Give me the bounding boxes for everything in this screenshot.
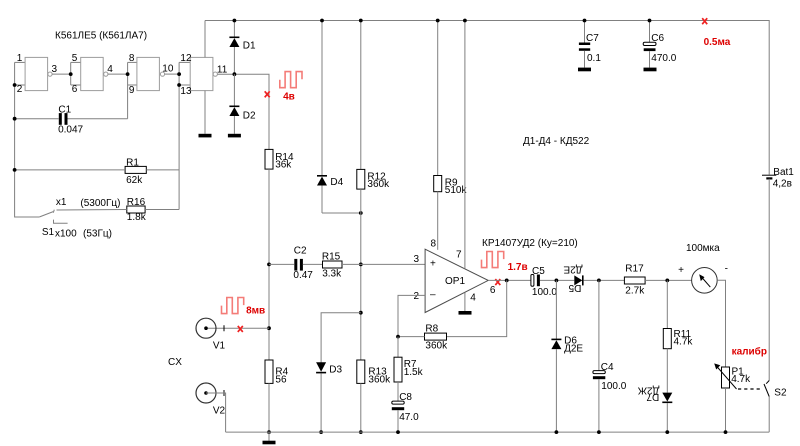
svg-text:V2: V2 bbox=[213, 406, 226, 417]
resistor R9 bbox=[434, 176, 468, 196]
diode D4 bbox=[317, 175, 344, 213]
svg-text:6: 6 bbox=[72, 84, 78, 95]
svg-text:0.047: 0.047 bbox=[58, 124, 83, 135]
svg-text:1.7в: 1.7в bbox=[508, 262, 528, 273]
node: pin3 row right junction bbox=[359, 263, 363, 267]
diode D1 bbox=[229, 21, 256, 75]
node: bottom rail at C4 bbox=[597, 430, 601, 434]
node: pin3 row left junction bbox=[267, 263, 271, 267]
node: D4 top rail junction bbox=[320, 19, 324, 23]
node: C7 top rail junction bbox=[583, 19, 587, 23]
node: output junction bbox=[505, 279, 509, 283]
svg-text:4.7k: 4.7k bbox=[674, 337, 694, 348]
capacitor C6 electrolytic bbox=[643, 21, 677, 68]
resistor R7 bbox=[394, 357, 424, 382]
svg-text:D2: D2 bbox=[243, 110, 256, 121]
wire: P1 to bottom rail bbox=[725, 388, 727, 432]
resistor R8 bbox=[425, 323, 449, 351]
svg-text:D7: D7 bbox=[646, 391, 659, 402]
node: bottom rail at P1 bbox=[724, 430, 728, 434]
wire: pin4 ground stub bbox=[464, 293, 466, 312]
wire: pin3 row segment 3 to op-amp bbox=[342, 263, 425, 265]
wire: P1 wiper dashed link to S2 bbox=[738, 388, 762, 390]
gate U1.4 bbox=[180, 53, 227, 97]
wire: feedback left of R8 up to pin2 bbox=[398, 295, 425, 336]
wire: R1 row right bbox=[146, 169, 179, 171]
meter M1 bbox=[678, 264, 728, 294]
wire: C1 row left bbox=[15, 118, 59, 120]
op-amp U2 triangle bbox=[414, 239, 496, 313]
diode D6 bbox=[551, 280, 583, 432]
wire: gate3 pin8 stub bbox=[128, 61, 137, 63]
wire: R12 down through pin3 row to R13 bbox=[360, 189, 362, 360]
ground at bottom rail bbox=[263, 441, 276, 445]
svg-text:S2: S2 bbox=[774, 388, 787, 399]
diode D5 bbox=[563, 264, 583, 294]
svg-text:D4: D4 bbox=[330, 177, 343, 188]
svg-text:510k: 510k bbox=[445, 185, 468, 196]
wire: gate4 ground pin bbox=[204, 91, 206, 134]
wire: gate1 pin2 stub bbox=[15, 84, 26, 86]
resistor R14 bbox=[265, 149, 294, 170]
probe mark x at V1 bbox=[238, 326, 243, 332]
capacitor C1 bbox=[58, 105, 83, 136]
node: D1/D2 on pin11 row bbox=[233, 72, 237, 76]
resistor R1 bbox=[125, 158, 146, 187]
node: bottom rail at R4 bbox=[267, 430, 271, 434]
svg-text:(5300Гц): (5300Гц) bbox=[80, 198, 120, 209]
svg-text:360k: 360k bbox=[425, 340, 448, 351]
svg-text:Д2Е: Д2Е bbox=[564, 343, 583, 354]
svg-text:C4: C4 bbox=[601, 362, 614, 373]
svg-text:C5: C5 bbox=[532, 266, 545, 277]
svg-text:100.0: 100.0 bbox=[601, 381, 626, 392]
wire: gate3 input vertical down to C1 bbox=[127, 62, 129, 118]
wire: meter minus to P1 column bbox=[717, 280, 725, 367]
terminal V2 bbox=[196, 383, 226, 417]
node: C1 left junction bbox=[13, 117, 17, 121]
node: pin8 top rail junction bbox=[436, 19, 440, 23]
svg-text:C2: C2 bbox=[294, 246, 307, 257]
gate U1.3 bbox=[129, 53, 174, 96]
wire: gate3 output to gate4 bbox=[165, 73, 180, 75]
ground under gate4 bbox=[199, 134, 212, 138]
ground under C6 bbox=[644, 68, 657, 72]
svg-text:CX: CX bbox=[168, 357, 182, 368]
node: gate4 input junction top bbox=[177, 72, 181, 76]
node: gate2 input junction bbox=[69, 72, 73, 76]
svg-text:2.7k: 2.7k bbox=[625, 286, 645, 297]
svg-text:4.7k: 4.7k bbox=[731, 374, 751, 385]
capacitor C7 bbox=[579, 21, 601, 68]
svg-text:S1: S1 bbox=[42, 227, 55, 238]
wire: pin3 row segment 2 bbox=[303, 263, 323, 265]
wire: pin8 column upper bbox=[437, 21, 439, 176]
wire: right rail below battery to S2 bbox=[768, 179, 770, 381]
svg-text:C8: C8 bbox=[399, 392, 412, 403]
svg-text:13: 13 bbox=[180, 86, 192, 97]
wire: R17 to meter bbox=[645, 279, 692, 281]
svg-text:56: 56 bbox=[275, 375, 287, 386]
node: D4 link junction bbox=[359, 211, 363, 215]
wire: top rail bbox=[205, 21, 769, 175]
svg-text:x100: x100 bbox=[55, 229, 77, 240]
svg-text:100мка: 100мка bbox=[686, 243, 720, 254]
svg-text:+: + bbox=[430, 259, 436, 270]
svg-text:100.0: 100.0 bbox=[532, 287, 557, 298]
capacitor C5 electrolytic bbox=[531, 266, 557, 298]
wire: left column vertical with S1 common run bbox=[15, 62, 40, 217]
svg-text:0.5ма: 0.5ма bbox=[704, 37, 731, 48]
svg-text:R15: R15 bbox=[322, 251, 341, 262]
wire: D3 top link bbox=[321, 313, 361, 363]
wire: gate1 pin1 stub bbox=[15, 61, 26, 63]
svg-text:V1: V1 bbox=[213, 341, 226, 352]
wire: gate4 pin13 stub bbox=[179, 84, 190, 86]
wire: R16 row left from S1 x1 contact bbox=[57, 209, 127, 212]
wire: ground stub below bottom rail bbox=[268, 432, 270, 441]
wire: R7 to C8 bbox=[397, 382, 399, 401]
resistor R11 bbox=[663, 329, 693, 349]
wire: gate2 input vertical bbox=[70, 62, 72, 85]
node: R12 top rail junction bbox=[359, 19, 363, 23]
resistor R12 bbox=[357, 169, 390, 190]
wire: D4 bottom link to R12 column bbox=[322, 212, 361, 214]
svg-text:8: 8 bbox=[129, 53, 135, 64]
svg-text:C7: C7 bbox=[586, 33, 599, 44]
wire: feedback down from output bbox=[447, 280, 507, 336]
node: C4 top junction bbox=[597, 279, 601, 283]
svg-text:D5: D5 bbox=[568, 282, 581, 293]
node: gate1 input junction bbox=[13, 83, 17, 87]
svg-text:3: 3 bbox=[52, 64, 58, 75]
wire: gate2 output to gate3 bbox=[108, 73, 128, 75]
wire: C5 to D5 bbox=[540, 279, 574, 281]
wire: R13 to bottom rail bbox=[360, 383, 362, 432]
wire: gate3 pin9 stub bbox=[128, 84, 137, 86]
probe mark x on top rail bbox=[702, 18, 707, 24]
svg-text:(53Гц): (53Гц) bbox=[83, 229, 112, 240]
svg-text:R1: R1 bbox=[126, 158, 139, 169]
node: V1 junction bbox=[267, 326, 271, 330]
svg-text:8мв: 8мв bbox=[246, 306, 265, 317]
wire: R1 row left bbox=[15, 169, 126, 171]
svg-text:3.3k: 3.3k bbox=[322, 269, 342, 280]
svg-text:OP1: OP1 bbox=[445, 276, 465, 287]
wire: R12 column from top rail bbox=[360, 21, 362, 170]
ground at op-amp pin4 bbox=[459, 311, 472, 315]
svg-text:0.1: 0.1 bbox=[587, 53, 601, 64]
svg-text:калибр: калибр bbox=[732, 345, 767, 357]
svg-text:4: 4 bbox=[107, 64, 113, 75]
svg-text:R17: R17 bbox=[625, 264, 644, 275]
svg-text:2: 2 bbox=[17, 84, 23, 95]
wire: bottom rail bbox=[226, 431, 770, 433]
wire: V1 row bbox=[206, 327, 269, 329]
wire: gate4 power pin up to top rail bbox=[204, 21, 206, 58]
svg-text:62k: 62k bbox=[126, 175, 143, 186]
svg-text:КР1407УД2 (Ку=210): КР1407УД2 (Ку=210) bbox=[482, 238, 578, 249]
waveform marker 1.7v bbox=[482, 252, 528, 274]
svg-text:D3: D3 bbox=[329, 365, 342, 376]
wire: gate4 output row to D1/D2 node and corner bbox=[217, 74, 269, 149]
node: R1 left junction bbox=[13, 168, 17, 172]
svg-text:4,2в: 4,2в bbox=[773, 179, 792, 190]
wire: pin7 column bbox=[464, 21, 466, 269]
svg-text:4: 4 bbox=[470, 293, 476, 304]
svg-text:C6: C6 bbox=[651, 33, 664, 44]
diode D3 bbox=[316, 362, 342, 432]
node: bottom rail at C8 bbox=[396, 430, 400, 434]
node: R11 top junction bbox=[665, 279, 669, 283]
capacitor C2 bbox=[293, 246, 313, 281]
probe mark x at gate4 output bbox=[265, 91, 270, 97]
svg-text:Д2Е: Д2Е bbox=[563, 264, 582, 275]
node: gate3 input junction bbox=[126, 72, 130, 76]
wire: R16 row right bbox=[145, 209, 179, 211]
switch S2 bbox=[764, 381, 787, 433]
capacitor C4 electrolytic bbox=[593, 280, 627, 432]
wire: C8 to bottom rail bbox=[397, 410, 399, 432]
svg-text:1: 1 bbox=[17, 53, 23, 64]
resistor R15 bbox=[322, 251, 342, 279]
node: bottom rail at D7 bbox=[665, 430, 669, 434]
wire: D4 column from top rail bbox=[321, 21, 323, 177]
svg-text:360k: 360k bbox=[367, 179, 390, 190]
waveform marker 4v bbox=[280, 72, 302, 103]
svg-text:3: 3 bbox=[414, 254, 420, 265]
wire: R14 to pin3 row, V1 row, R4 bbox=[268, 169, 270, 360]
resistor R17 bbox=[624, 264, 645, 297]
svg-text:6: 6 bbox=[490, 285, 496, 296]
wire: gate1 output to gate2 bbox=[52, 73, 71, 75]
resistor R13 bbox=[357, 360, 391, 386]
svg-text:4в: 4в bbox=[283, 91, 295, 102]
diode D2 bbox=[229, 74, 256, 134]
node: D3 link junction bbox=[359, 311, 363, 315]
wire: pin8 column lower bbox=[437, 192, 439, 250]
capacitor C8 electrolytic bbox=[392, 392, 419, 423]
svg-text:Bat1: Bat1 bbox=[773, 167, 794, 178]
wire: D5 to R17 bbox=[584, 279, 625, 281]
ground under D2 bbox=[228, 134, 241, 138]
wire: gate4 pin12 stub bbox=[179, 61, 190, 63]
wire: V2 to bottom rail bbox=[206, 393, 226, 432]
wire: pin3 row segment 1 bbox=[269, 263, 294, 265]
battery Bat1 bbox=[762, 167, 794, 190]
svg-text:-: - bbox=[725, 264, 728, 275]
svg-text:R8: R8 bbox=[425, 323, 438, 334]
ground under C7 bbox=[578, 68, 591, 72]
svg-text:R16: R16 bbox=[127, 197, 146, 208]
svg-text:2: 2 bbox=[414, 291, 420, 302]
wire: gate4 input vertical down to R16 row bbox=[178, 62, 180, 209]
svg-text:10: 10 bbox=[162, 64, 174, 75]
probe mark x at op-amp output bbox=[495, 279, 500, 285]
svg-text:47.0: 47.0 bbox=[399, 412, 419, 423]
svg-text:1.8k: 1.8k bbox=[127, 212, 147, 223]
wire: C1 row right bbox=[68, 118, 128, 120]
terminal V1 bbox=[196, 318, 226, 351]
wire: gate2 pin6 stub bbox=[71, 84, 81, 86]
wire: R4 to bottom rail bbox=[268, 383, 270, 432]
wire: R7 column upper bbox=[397, 337, 399, 358]
svg-text:470.0: 470.0 bbox=[651, 53, 676, 64]
wire: R11 to D7 bbox=[666, 349, 668, 393]
node: pin7 top rail junction bbox=[463, 19, 467, 23]
potentiometer P1 bbox=[714, 363, 751, 389]
svg-text:7: 7 bbox=[456, 250, 462, 261]
svg-text:36k: 36k bbox=[275, 160, 292, 171]
resistor R4 bbox=[265, 360, 289, 386]
svg-text:5: 5 bbox=[72, 53, 78, 64]
diode D7 bbox=[637, 384, 672, 432]
wire: gate2 pin5 stub bbox=[71, 61, 81, 63]
svg-text:–: – bbox=[430, 289, 436, 300]
node: R7 top junction bbox=[396, 335, 400, 339]
gate U1.1 bbox=[17, 53, 58, 95]
node: D6 top junction bbox=[555, 279, 559, 283]
node: bottom rail at R13 bbox=[359, 430, 363, 434]
node: D1 top rail junction bbox=[233, 19, 237, 23]
svg-text:0.47: 0.47 bbox=[293, 270, 313, 281]
svg-text:C1: C1 bbox=[58, 105, 71, 116]
svg-text:+: + bbox=[678, 265, 684, 276]
svg-text:1.5k: 1.5k bbox=[404, 367, 424, 378]
svg-text:12: 12 bbox=[180, 53, 192, 64]
svg-text:9: 9 bbox=[129, 85, 135, 96]
node: gate4 input junction bottom bbox=[177, 83, 181, 87]
svg-text:Д1-Д4 - КД522: Д1-Д4 - КД522 bbox=[523, 136, 590, 147]
svg-text:К561ЛЕ5 (К561ЛА7): К561ЛЕ5 (К561ЛА7) bbox=[55, 31, 147, 42]
svg-text:D1: D1 bbox=[243, 40, 256, 51]
svg-text:8: 8 bbox=[431, 239, 437, 250]
resistor R16 bbox=[127, 197, 147, 223]
waveform marker 8mv bbox=[222, 298, 266, 317]
svg-text:360k: 360k bbox=[368, 375, 391, 386]
node: bottom rail at D3 bbox=[319, 430, 323, 434]
gate U1.2 bbox=[72, 53, 113, 95]
svg-text:x1: x1 bbox=[56, 197, 67, 208]
node: C6 top rail junction bbox=[648, 19, 652, 23]
wire: R11 column upper bbox=[666, 280, 668, 328]
node: bottom rail at D6 bbox=[555, 430, 559, 434]
switch S1 bbox=[39, 197, 120, 240]
wire: output row to C5 bbox=[488, 279, 532, 281]
